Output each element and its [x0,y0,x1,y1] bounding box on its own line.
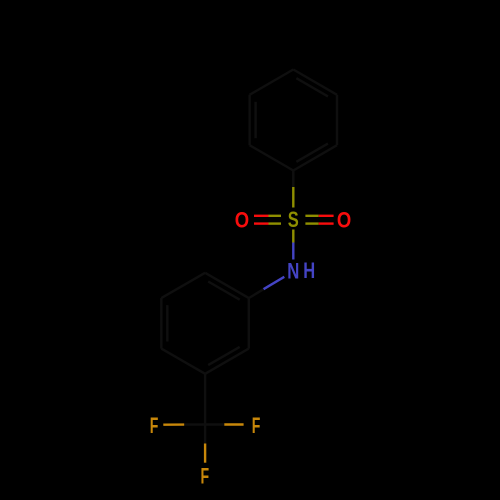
atom F bottom [200,463,209,488]
double bond S=O right [305,216,333,224]
atom H on N [303,259,315,284]
atom F right [252,413,261,438]
double bond S=O left [254,216,281,224]
bond C-F bottom [204,424,206,462]
atom O left [235,209,249,233]
bond N to aniline ring [249,277,284,298]
bond ring to CF3 carbon [204,374,206,425]
bond C-F right [205,423,244,425]
svg-text:F: F [150,413,159,438]
svg-text:O: O [235,209,249,233]
bond C-F left [163,423,205,426]
svg-text:F: F [252,413,261,438]
atom F left [150,413,159,438]
atom N [287,259,299,284]
svg-text:F: F [200,463,209,488]
bond ring-C to S [292,171,294,208]
benzene ring (aniline) inner double-bond lines [167,282,239,366]
svg-text:O: O [337,209,351,233]
atom S [288,208,299,233]
svg-text:H: H [303,259,315,284]
atom O right [337,209,351,233]
benzene ring (aniline) outline [161,273,249,374]
benzene ring (phenyl on sulfonyl) outline [250,70,337,171]
svg-text:N: N [287,259,299,284]
benzene ring (phenyl on sulfonyl) inner double-bond lines [256,78,328,162]
bond S-N [292,230,294,260]
svg-text:S: S [288,208,299,233]
